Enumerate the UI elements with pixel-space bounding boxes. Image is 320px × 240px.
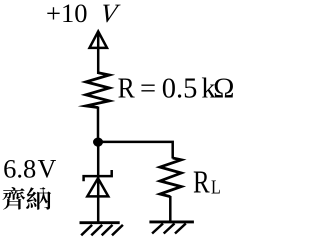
svg-text:R: R [193,165,210,201]
svg-text:V: V [38,154,57,183]
svg-text:L: L [211,176,221,198]
wire: node A to RL branch (horizontal + corner) [98,142,173,159]
node A junction dot [93,138,103,147]
svg-text:=: = [140,74,156,105]
supply arrow +10V terminal [90,31,108,48]
wire: resistor RL to right ground [169,196,172,222]
wire: resistor R to node A [97,107,100,143]
svg-text:Ω: Ω [213,74,234,105]
zener diode D1 cathode bar (bent) [84,170,112,181]
label 6.8 V zener voltage [3,154,56,184]
svg-text:V: V [99,0,122,28]
svg-text:+10: +10 [46,0,87,28]
label R = 0.5 kOhm [118,72,235,104]
zener diode D1 anode triangle [87,178,108,196]
ground (left, under zener) [80,223,123,236]
resistor R [86,73,109,108]
svg-text:6.8: 6.8 [3,154,36,184]
svg-text:R: R [118,72,136,104]
wire: node A through zener to left ground [97,142,100,222]
wire: supply arrow to resistor R [97,31,100,74]
label RL load resistor [193,165,221,201]
ground (right, under RL) [149,222,194,234]
resistor RL [160,158,181,197]
label zener (Chinese characters) [2,187,51,210]
svg-text:0.5: 0.5 [162,74,198,105]
label +10 V supply voltage [46,0,122,28]
